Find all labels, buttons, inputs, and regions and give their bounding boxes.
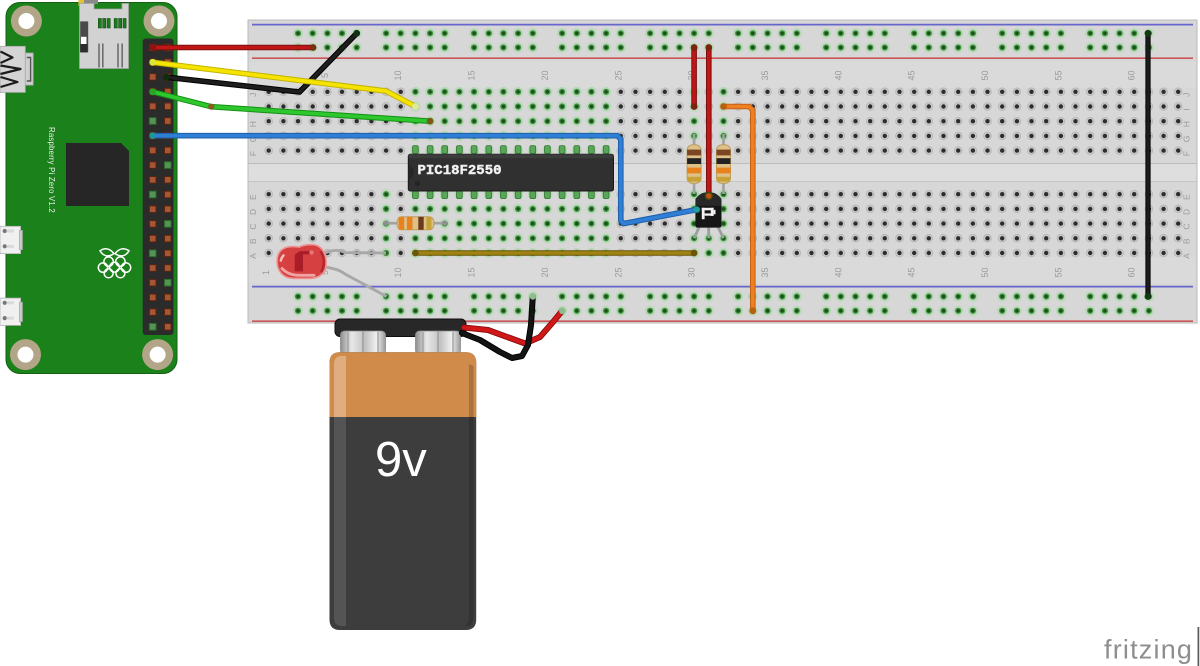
svg-text:H: H — [248, 121, 258, 127]
mounting hole — [11, 6, 42, 37]
svg-text:A: A — [1182, 253, 1192, 259]
battery clip bar — [335, 319, 466, 337]
svg-text:60: 60 — [1127, 267, 1137, 277]
svg-text:J: J — [248, 93, 258, 97]
transistor Q1 body — [695, 192, 721, 227]
svg-text:F: F — [248, 151, 258, 156]
svg-text:C: C — [1182, 224, 1192, 230]
battery terminal left — [341, 331, 386, 355]
top rail blue stripe — [252, 24, 1193, 26]
wire orange I32-rail — [720, 103, 756, 314]
wire yellow Pi to I11 — [149, 59, 419, 110]
battery 9V body — [330, 352, 477, 630]
svg-text:15: 15 — [467, 70, 477, 80]
svg-text:B: B — [1182, 238, 1192, 244]
IC U1 PIC18F2550 pins — [413, 146, 610, 199]
power rail holes — [293, 28, 1154, 316]
main grid holes bottom half — [265, 189, 1182, 258]
Raspberry Pi Zero board — [6, 3, 177, 374]
svg-text:30: 30 — [687, 267, 697, 277]
svg-text:50: 50 — [980, 70, 990, 80]
resistor R1 330 horizontal C9-C13 — [384, 217, 448, 230]
svg-text:40: 40 — [833, 267, 843, 277]
battery red wire — [464, 308, 565, 344]
svg-text:Raspberry Pi Zero V1.2: Raspberry Pi Zero V1.2 — [47, 127, 56, 213]
bottom rail red stripe — [252, 320, 1193, 322]
wire red Pi to top rail — [149, 44, 316, 51]
battery black wire — [462, 293, 536, 358]
svg-text:9v: 9v — [375, 433, 427, 487]
mounting hole — [144, 6, 175, 37]
svg-text:D: D — [1182, 209, 1192, 215]
breadboard row letter labels — [248, 93, 1192, 259]
svg-text:60: 60 — [1127, 70, 1137, 80]
svg-text:10: 10 — [393, 267, 403, 277]
svg-text:A: A — [248, 253, 258, 259]
resistor R3 10k vertical col32 — [717, 134, 731, 194]
wire blue Pi to transistor — [149, 132, 696, 223]
IC U1 PIC18F2550 body — [408, 154, 613, 191]
mounting hole — [10, 339, 41, 370]
micro USB connector — [0, 226, 23, 253]
svg-text:25: 25 — [613, 267, 623, 277]
svg-text:J: J — [1182, 93, 1192, 97]
mini HDMI connector — [0, 46, 33, 92]
svg-text:10: 10 — [393, 70, 403, 80]
micro USB connector — [0, 298, 23, 325]
svg-text:1: 1 — [261, 270, 271, 275]
transistor top cap (red wire end) — [705, 192, 713, 200]
svg-text:40: 40 — [833, 70, 843, 80]
svg-text:F: F — [1182, 151, 1192, 156]
svg-text:E: E — [1182, 194, 1192, 200]
svg-text:C: C — [248, 224, 258, 230]
wire red long rail-E31 — [705, 44, 712, 194]
svg-text:55: 55 — [1053, 70, 1063, 80]
blue wire end cap — [694, 206, 700, 212]
GPIO header — [143, 39, 174, 336]
svg-text:5: 5 — [320, 73, 330, 78]
mounting hole — [142, 339, 173, 370]
svg-text:I: I — [1182, 108, 1192, 110]
svg-text:25: 25 — [613, 70, 623, 80]
main grid holes top half — [265, 87, 1182, 156]
breadboard body — [248, 20, 1197, 323]
svg-text:55: 55 — [1053, 267, 1063, 277]
bottom rail blue stripe — [252, 286, 1193, 288]
wire red short rail-I30 — [691, 44, 698, 110]
SoC chip — [66, 143, 129, 206]
svg-text:20: 20 — [540, 267, 550, 277]
svg-text:50: 50 — [980, 267, 990, 277]
battery terminal right — [416, 331, 461, 355]
resistor R2 10k vertical col30 — [687, 134, 701, 194]
svg-text:45: 45 — [907, 267, 917, 277]
Raspberry Pi logo — [98, 249, 130, 278]
wire brown A11-A30 — [412, 250, 697, 257]
svg-text:B: B — [248, 238, 258, 244]
wire black rail jumper col61 — [1145, 30, 1152, 300]
svg-text:35: 35 — [760, 70, 770, 80]
svg-text:35: 35 — [760, 267, 770, 277]
svg-text:H: H — [1182, 121, 1192, 127]
LED body — [277, 245, 326, 279]
LED legs — [316, 250, 387, 296]
wire green Pi to H12 — [149, 88, 433, 124]
svg-text:45: 45 — [907, 70, 917, 80]
transistor Q1 legs — [694, 224, 723, 238]
breadboard column number labels — [261, 70, 1136, 277]
svg-text:15: 15 — [467, 267, 477, 277]
svg-text:20: 20 — [540, 70, 550, 80]
svg-text:PIC18F2550: PIC18F2550 — [418, 163, 502, 179]
fritzing watermark — [1104, 627, 1198, 666]
top rail red stripe — [252, 57, 1193, 59]
svg-text:E: E — [248, 194, 258, 200]
svg-text:fritzing: fritzing — [1104, 635, 1193, 665]
wire black Pi to top rail — [163, 30, 360, 92]
microSD slot — [79, 0, 129, 69]
svg-text:D: D — [248, 209, 258, 215]
svg-text:G: G — [1182, 136, 1192, 143]
